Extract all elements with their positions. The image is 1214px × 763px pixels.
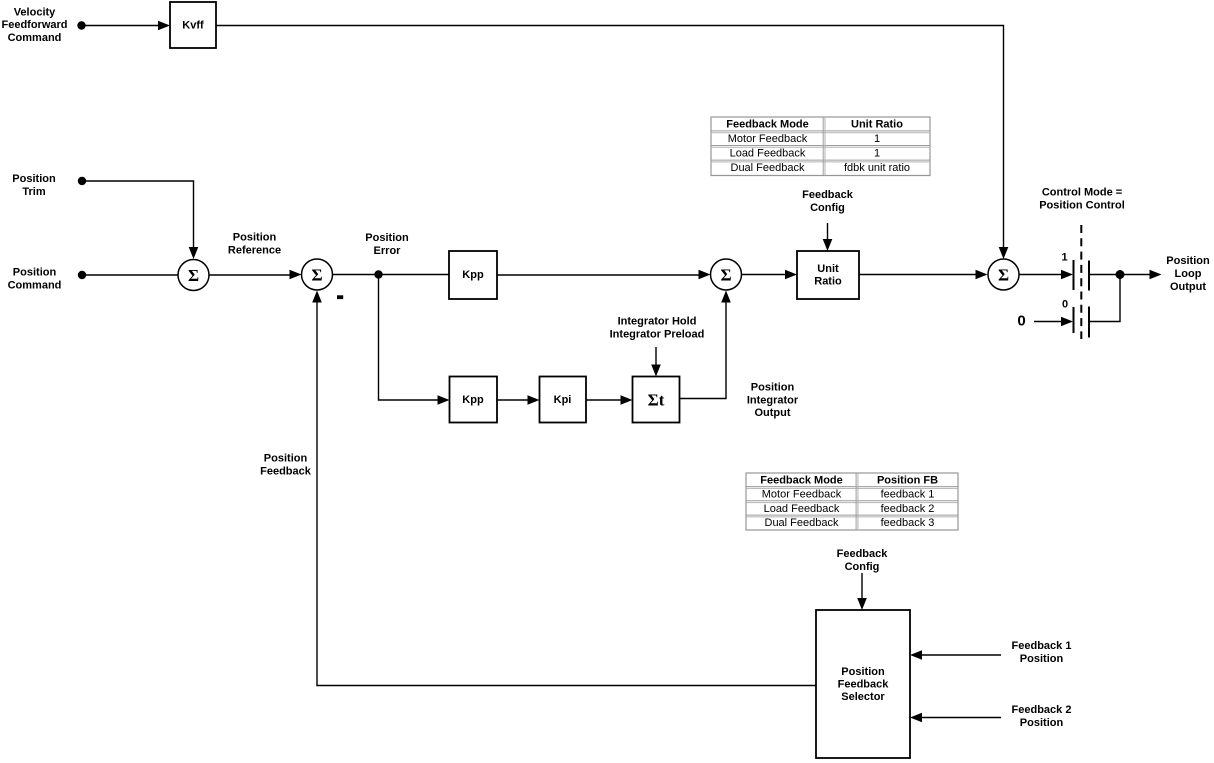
svg-text:Position: Position — [13, 267, 57, 279]
label Feedback Config lower — [837, 548, 889, 573]
svg-text:Kpp: Kpp — [462, 394, 484, 406]
svg-text:Command: Command — [8, 280, 62, 292]
table Feedback Mode / Position FB — [746, 473, 958, 530]
svg-text:Position: Position — [233, 232, 277, 244]
svg-text:Position: Position — [1020, 717, 1064, 729]
svg-text:Feedback: Feedback — [260, 466, 312, 478]
label Feedback Config upper — [802, 189, 854, 214]
label Position Integrator Output — [747, 382, 799, 420]
svg-text:Load Feedback: Load Feedback — [764, 503, 840, 515]
node switch output junction — [1116, 270, 1125, 279]
svg-text:Feedback Mode: Feedback Mode — [726, 119, 809, 131]
wire Kvff output to summing junction S4 — [216, 26, 1008, 260]
node dot position trim input — [78, 177, 86, 185]
label Velocity Feedforward Command — [1, 6, 67, 44]
svg-text:Control Mode =: Control Mode = — [1042, 187, 1122, 199]
svg-text:Feedback: Feedback — [802, 189, 854, 201]
svg-text:Load Feedback: Load Feedback — [730, 148, 806, 160]
svg-text:Integrator: Integrator — [747, 395, 799, 407]
svg-text:Σ: Σ — [998, 266, 1009, 285]
label minus sign at S2 — [337, 295, 343, 299]
svg-text:0: 0 — [1062, 299, 1068, 311]
svg-text:Kpp: Kpp — [462, 269, 484, 281]
svg-text:Output: Output — [1170, 281, 1206, 293]
svg-text:Trim: Trim — [22, 186, 45, 198]
label Position Reference — [228, 232, 281, 257]
svg-text:Σ: Σ — [311, 266, 322, 285]
wire constant 0 to switch input 0 — [1034, 317, 1073, 327]
svg-text:Position: Position — [12, 173, 56, 185]
wire switch input 0 contact to output node — [1089, 278, 1120, 322]
svg-text:Config: Config — [845, 561, 880, 573]
svg-text:Unit: Unit — [817, 263, 839, 275]
label Position Feedback — [260, 453, 312, 478]
svg-text:1: 1 — [874, 133, 880, 145]
label Position Error — [365, 232, 409, 257]
label Position Trim — [12, 173, 56, 198]
wire S2 to position error node — [333, 274, 379, 276]
svg-text:Position: Position — [751, 382, 795, 394]
wire integrator hold into sigma-t — [651, 347, 661, 377]
block Kvff — [170, 2, 216, 48]
svg-text:Motor Feedback: Motor Feedback — [728, 133, 808, 145]
wire S3 to Unit Ratio — [742, 270, 798, 280]
wire position feedback selector to S2 (feedback path) — [312, 291, 816, 686]
svg-text:feedback 3: feedback 3 — [881, 517, 935, 529]
node dot position command input — [78, 271, 86, 279]
svg-text:Position: Position — [264, 453, 308, 465]
svg-text:Feedback Mode: Feedback Mode — [760, 474, 843, 486]
svg-text:Error: Error — [374, 245, 402, 257]
label Integrator Hold / Integrator Preload — [610, 316, 705, 341]
node dot velocity feedforward input — [77, 21, 85, 29]
switch contact bars input 0 — [1074, 307, 1090, 338]
block Kpp upper — [449, 251, 497, 299]
wire S4 to switch input 1 — [1019, 270, 1073, 280]
svg-text:Feedback: Feedback — [838, 679, 890, 691]
svg-text:Σ: Σ — [188, 266, 199, 285]
wire position error node to Kpp lower — [379, 275, 450, 405]
block Kpi — [540, 377, 587, 423]
svg-text:Σt: Σt — [648, 391, 665, 410]
svg-text:Position: Position — [841, 666, 885, 678]
wire position trim to S1 — [82, 181, 198, 259]
svg-text:Dual Feedback: Dual Feedback — [731, 162, 805, 174]
label Feedback 2 Position — [1012, 704, 1072, 729]
svg-text:Velocity: Velocity — [14, 6, 56, 18]
wire switch contact 1 to position loop output — [1089, 270, 1162, 280]
block sigma-t integrator — [633, 377, 680, 423]
wire position command to S1 — [82, 274, 178, 276]
summing junction S1 — [178, 260, 209, 291]
svg-text:1: 1 — [874, 148, 880, 160]
svg-text:0: 0 — [1017, 313, 1025, 330]
wire feedback 1 into selector — [910, 650, 1001, 660]
svg-text:Integrator Hold: Integrator Hold — [618, 316, 697, 328]
block Position Feedback Selector — [816, 610, 910, 758]
svg-text:Feedback 1: Feedback 1 — [1012, 640, 1072, 652]
svg-text:Kpi: Kpi — [554, 394, 572, 406]
svg-text:Unit Ratio: Unit Ratio — [851, 119, 903, 131]
svg-text:Feedforward: Feedforward — [1, 19, 67, 31]
switch dashed select line — [1080, 225, 1082, 339]
svg-text:Config: Config — [810, 202, 845, 214]
summing junction S2 — [302, 259, 333, 290]
svg-text:Position FB: Position FB — [877, 474, 938, 486]
switch contact bars input 1 — [1074, 260, 1090, 291]
wire Kpp lower to Kpi — [497, 395, 540, 405]
svg-text:Integrator Preload: Integrator Preload — [610, 329, 705, 341]
label Control Mode = Position Control — [1039, 187, 1125, 212]
svg-text:Position: Position — [365, 232, 409, 244]
svg-text:Reference: Reference — [228, 245, 281, 257]
svg-text:Position Control: Position Control — [1039, 200, 1125, 212]
wire velocity feedforward input to Kvff — [82, 21, 171, 31]
wire feedback config into selector — [857, 573, 867, 610]
label Position Command — [8, 267, 62, 292]
svg-text:Position: Position — [1166, 255, 1210, 267]
svg-text:Output: Output — [754, 407, 790, 419]
wire Kpp upper to S3 — [497, 270, 711, 280]
svg-text:Σ: Σ — [720, 266, 731, 285]
wire Unit Ratio to S4 — [859, 270, 988, 280]
label Position Loop Output — [1166, 255, 1210, 293]
svg-text:Feedback: Feedback — [837, 548, 889, 560]
wire Kpi to integrator sigma-t — [586, 395, 633, 405]
svg-text:Kvff: Kvff — [182, 20, 204, 32]
svg-text:Selector: Selector — [841, 691, 885, 703]
wire S1 to S2 — [209, 270, 302, 280]
summing junction S4 — [988, 259, 1019, 290]
wire position error node to Kpp upper — [379, 274, 450, 276]
wire sigma-t output to S3 — [680, 291, 731, 399]
block Kpp lower — [450, 377, 498, 423]
table Feedback Mode / Unit Ratio — [711, 117, 930, 176]
svg-text:Command: Command — [8, 32, 62, 44]
wire feedback config into Unit Ratio — [823, 223, 833, 251]
wire feedback 2 into selector — [910, 713, 1001, 723]
svg-text:1: 1 — [1061, 252, 1067, 264]
svg-text:Dual Feedback: Dual Feedback — [765, 517, 839, 529]
svg-text:Loop: Loop — [1175, 268, 1202, 280]
node position error junction — [374, 270, 382, 278]
svg-text:Feedback 2: Feedback 2 — [1012, 704, 1072, 716]
svg-text:Motor Feedback: Motor Feedback — [762, 489, 842, 501]
svg-text:Position: Position — [1020, 653, 1064, 665]
svg-text:feedback 2: feedback 2 — [881, 503, 935, 515]
block Unit Ratio — [797, 251, 859, 299]
svg-text:feedback 1: feedback 1 — [881, 489, 935, 501]
svg-text:Ratio: Ratio — [814, 276, 842, 288]
summing junction S3 — [711, 259, 742, 290]
svg-text:fdbk unit ratio: fdbk unit ratio — [844, 162, 910, 174]
label Feedback 1 Position — [1012, 640, 1072, 665]
